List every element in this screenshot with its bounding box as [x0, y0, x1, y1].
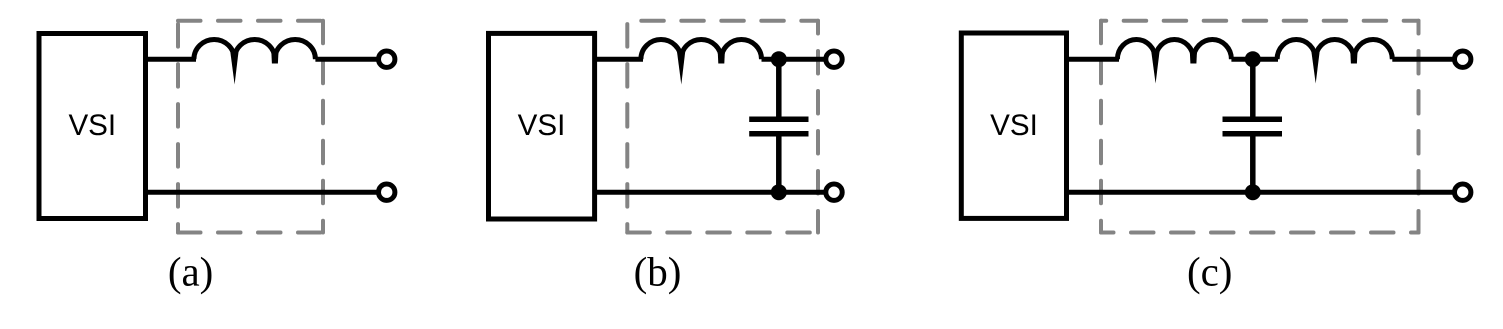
output terminal (b) top: [826, 51, 842, 67]
svg-text:(a): (a): [168, 248, 214, 294]
inductor L (b): [641, 39, 762, 84]
node: top junction dot (c): [1245, 51, 1261, 67]
wire: junction down to capacitor (c): [1250, 59, 1256, 116]
wire: junction down to capacitor (b): [776, 59, 782, 116]
capacitor C (c): [1223, 119, 1283, 134]
wire: VSI to output terminal (c) bottom: [1067, 190, 1457, 195]
dashed filter boundary box (a): [178, 21, 323, 233]
output terminal (c) bottom: [1455, 184, 1471, 200]
svg-text:VSI: VSI: [990, 109, 1038, 142]
wire: VSI to inductor L (a) top: [146, 57, 197, 62]
wire: inductor to terminal (b) top: [762, 57, 828, 62]
dashed filter boundary box (b): [627, 21, 818, 233]
wire: L2 to output terminal (c) top: [1392, 57, 1456, 62]
inductor L2 (c): [1277, 39, 1392, 83]
wire: inductor to output terminal (a) top: [315, 57, 380, 62]
node: top junction dot (b): [771, 51, 787, 67]
VSI box (a): [39, 34, 146, 219]
dashed filter boundary box (c): [1101, 21, 1419, 233]
wire: VSI to output terminal (a) bottom: [146, 190, 381, 195]
wire: capacitor down to bottom rail (b): [776, 137, 782, 193]
output terminal (b) bottom: [826, 184, 842, 200]
svg-text:VSI: VSI: [518, 109, 566, 142]
wire: capacitor down to bottom rail (c): [1250, 137, 1256, 193]
wire: VSI to inductor L (b) top: [595, 57, 643, 62]
wire: VSI to inductor L1 (c) top: [1067, 57, 1120, 62]
wire: L1 to junction (c): [1231, 57, 1278, 62]
output terminal (a) top: [379, 51, 395, 67]
VSI box (c): [961, 33, 1066, 218]
svg-text:(c): (c): [1187, 248, 1233, 294]
output terminal (a) bottom: [379, 184, 395, 200]
capacitor C (b): [749, 119, 808, 134]
node: bottom junction dot (b): [771, 184, 787, 200]
VSI box (b): [489, 33, 595, 219]
svg-text:(b): (b): [634, 248, 682, 294]
inductor L (a): [194, 40, 316, 85]
inductor L1 (c): [1117, 40, 1231, 84]
node: bottom junction dot (c): [1245, 184, 1261, 200]
wire: VSI to output terminal (b) bottom: [595, 190, 827, 195]
svg-text:VSI: VSI: [68, 109, 116, 142]
output terminal (c) top: [1455, 51, 1471, 67]
